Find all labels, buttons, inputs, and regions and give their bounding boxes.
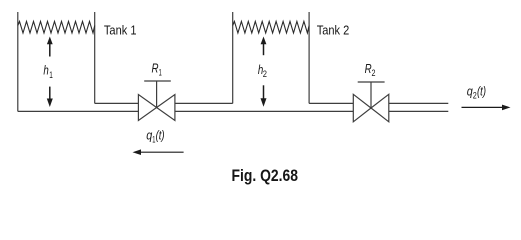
svg-text:R: R bbox=[152, 61, 159, 76]
tank 1 right wall bbox=[94, 12, 96, 103]
tank 2 right wall bbox=[308, 12, 310, 103]
svg-text:h: h bbox=[43, 63, 48, 78]
pipe top line: valve R1 to tank 2 bbox=[175, 102, 233, 104]
svg-text:Tank 2: Tank 2 bbox=[317, 24, 350, 38]
pipe top line: valve R2 to outlet bbox=[389, 102, 449, 104]
tank 1 water surface zigzag bbox=[18, 21, 95, 33]
valve R2 handle bar bbox=[358, 81, 385, 83]
svg-text:2: 2 bbox=[372, 68, 376, 79]
pipe top line: tank1 to valve R1 bbox=[95, 102, 139, 104]
tank 2 left wall bbox=[232, 12, 234, 103]
valve R1 stem bbox=[156, 81, 158, 108]
valve R2 body (bowtie) bbox=[353, 94, 371, 122]
h2 down arrow bbox=[263, 85, 265, 98]
pipe bottom line: valve R2 to outlet bbox=[389, 110, 449, 112]
svg-text:Tank 1: Tank 1 bbox=[104, 24, 137, 38]
valve R1 handle bar bbox=[144, 80, 171, 82]
q1 flow arrow (points left) bbox=[141, 151, 184, 153]
svg-text:(t): (t) bbox=[477, 85, 486, 99]
h1 down arrow bbox=[49, 87, 51, 99]
svg-text:Fig. Q2.68: Fig. Q2.68 bbox=[232, 167, 299, 185]
svg-text:2: 2 bbox=[263, 69, 267, 80]
pipe top line: tank 2 to valve R2 bbox=[309, 102, 353, 104]
svg-text:(t): (t) bbox=[156, 129, 165, 143]
pipe bottom line: tank1 bottom to valve R1 bbox=[18, 110, 139, 112]
valve R2 stem bbox=[370, 82, 372, 108]
tank 1 left wall bbox=[17, 12, 19, 111]
svg-text:1: 1 bbox=[159, 67, 162, 78]
q2 flow arrow (points right) bbox=[462, 106, 504, 108]
h2 up arrow bbox=[263, 44, 265, 55]
svg-text:1: 1 bbox=[49, 70, 53, 81]
valve R1 body (bowtie) bbox=[138, 95, 156, 121]
pipe bottom line: valve R1 to valve R2 (under tank 2) bbox=[175, 110, 353, 112]
tank 2 water surface zigzag bbox=[233, 21, 309, 33]
h1 up arrow bbox=[49, 44, 51, 57]
